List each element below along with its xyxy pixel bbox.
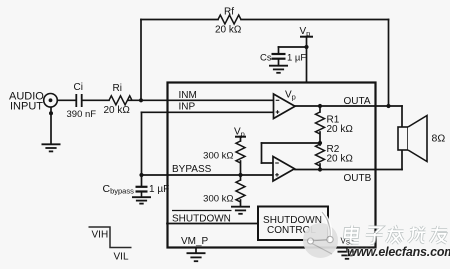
IC box [168,83,376,248]
op-amp U1 [274,94,296,119]
wire Rf top right segment [241,19,389,21]
resistor 300k lower [236,180,245,202]
svg-text:BYPASS: BYPASS [172,164,212,175]
wire Cs stub top [278,47,280,54]
wire OUTA from op-amp U1 output to speaker [295,105,402,107]
wire Cs stub bottom to ground [278,59,280,66]
wire Vp to Cs [279,46,307,48]
wire R1 bottom to node [319,132,321,145]
wire VM_P ground stub [195,248,197,254]
watermark magnifier logo [303,212,338,258]
svg-text:8Ω: 8Ω [432,133,446,145]
watermark chinese characters [344,226,448,244]
wire Vp rail down to IC box top [306,37,308,83]
wire SHUTDOWN pin to shutdown control block [167,223,258,225]
wire U2 feedback vertical [261,143,263,163]
capacitor Cs [272,54,286,59]
resistor Rf [218,15,241,24]
wire BYPASS pin to op-amp U2 non-inverting input [142,174,274,176]
wire node to U2 feedback left [262,142,321,144]
svg-text:OUTA: OUTA [344,96,371,107]
svg-text:VIH: VIH [92,230,109,241]
svg-text:Ri: Ri [113,83,122,94]
wire INP pin to op-amp U1 non-inverting input [142,111,274,113]
node OUTA-feedback junction [386,104,390,108]
ground Vss [338,252,357,259]
svg-text:300 kΩ: 300 kΩ [203,151,233,162]
svg-text:Cs: Cs [260,53,272,64]
wire divider bottom to ground [240,200,242,207]
wire audio input to Ci [51,99,77,101]
svg-text:300 kΩ: 300 kΩ [203,194,233,205]
wire U2 feedback to inverting input [262,162,274,164]
wire audio jack to ground [50,107,52,144]
op-amp U2 [273,157,295,182]
capacitor Cbypass [136,187,148,192]
speaker [398,116,427,162]
ground audio input [42,144,61,151]
svg-text:VIL: VIL [114,252,129,263]
resistor 300k upper [236,141,245,163]
svg-text:VM_P: VM_P [181,236,209,247]
power Vp divider symbol [234,127,246,139]
resistor R2 [316,144,325,166]
wire Ci to Ri [82,99,109,101]
capacitor Ci [76,94,81,107]
node OUTB-R2 junction [318,167,322,171]
wire R1 stub top [319,106,321,112]
wire feedback right vertical to node OUTA [388,20,390,107]
ground Cbypass [132,197,151,203]
wire Rf top left segment [141,19,218,21]
wire R2 bottom stub [319,164,321,170]
svg-text:SHUTDOWN: SHUTDOWN [172,214,231,225]
node BYPASS junction [139,173,143,177]
svg-text:20 kΩ: 20 kΩ [327,124,354,135]
svg-text:390 nF: 390 nF [67,109,97,120]
svg-text:1 µF: 1 µF [149,184,169,195]
wire speaker bottom vertical [401,150,403,170]
node INM junction [139,98,143,102]
wire feedback left vertical to node INM [140,20,142,101]
ground divider [231,207,250,214]
shutdown waveform VIH VIL [89,227,132,248]
power Vp top rail symbol [300,26,314,38]
node Vp-Cs junction [304,45,308,49]
wire divider mid to BYPASS node [240,161,242,180]
wire Vp divider stub [240,137,242,142]
ground VM_P [187,253,206,261]
wire INP drop to BYPASS node [141,112,143,175]
svg-text:20 kΩ: 20 kΩ [327,153,354,164]
svg-text:INPUT: INPUT [10,100,43,112]
wire OUTB from op-amp U2 output to speaker [295,169,402,171]
resistor R1 [316,112,325,134]
wire speaker top vertical [401,106,403,127]
shutdown control block [258,207,328,241]
wire Cbypass stub [141,175,143,186]
audio input jack [44,94,58,116]
node divider-BYPASS junction [238,173,242,177]
svg-text:20 kΩ: 20 kΩ [104,105,131,116]
svg-text:Rf: Rf [224,7,234,18]
wire Vss ground stub [346,248,348,252]
svg-text:20 kΩ: 20 kΩ [215,25,242,36]
svg-text:1 µF: 1 µF [287,53,306,64]
svg-text:Ci: Ci [74,82,83,93]
node OUTA-R1 junction [318,104,322,108]
resistor Ri [109,96,132,105]
wire Ri to INM pin to op-amp U1 inverting input [128,99,274,101]
wire Cbypass bottom stub [141,192,143,198]
svg-text:INM: INM [179,90,197,101]
svg-text:www.elecfans.com: www.elecfans.com [347,245,450,259]
svg-text:INP: INP [179,102,196,113]
ground Cs [269,66,288,73]
node R1-R2 junction [318,141,322,145]
svg-text:OUTB: OUTB [344,173,372,184]
